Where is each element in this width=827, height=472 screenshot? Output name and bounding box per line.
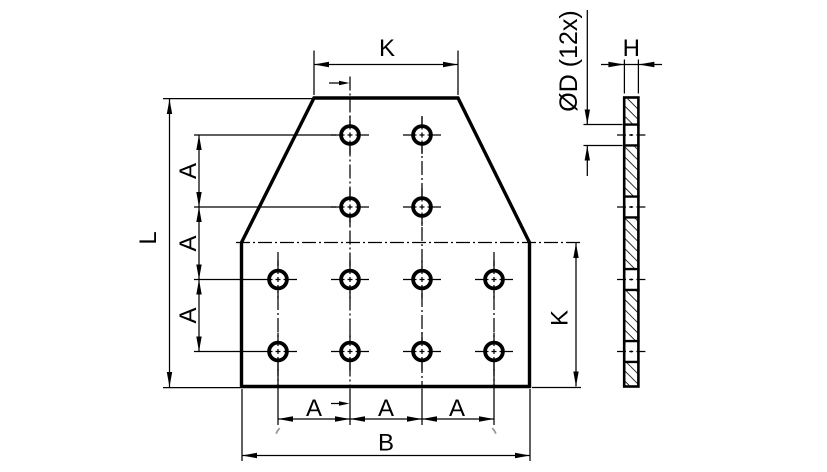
dimension L: arrowheads — [167, 99, 172, 114]
dimension K top: extension lines — [313, 51, 315, 96]
small reference arrow top — [329, 82, 346, 84]
hole crosshairs — [259, 116, 513, 371]
dimension OD: leader line upper — [586, 10, 588, 124]
holes (12x) — [269, 126, 503, 360]
column centerline col3 x=422 — [421, 117, 423, 387]
dimension A left chain: arrowheads — [196, 135, 201, 150]
svg-text:ØD (12x): ØD (12x) — [555, 10, 583, 111]
side view hatching segments — [625, 99, 638, 125]
phantom arc marks — [276, 428, 280, 434]
dimension K top: dimension line — [314, 64, 458, 66]
column centerline col4 x=494 — [493, 252, 495, 387]
dimension H: extension lines — [623, 60, 625, 94]
dimension B: dimension line — [242, 455, 530, 457]
dimension B: arrowheads — [242, 453, 257, 458]
dimension K right: arrowheads — [573, 243, 578, 258]
dimension K top: arrowheads — [314, 62, 329, 67]
plate outline (front view T-plate) — [242, 98, 530, 387]
dimension L: extension lines — [163, 98, 313, 100]
svg-text:A: A — [449, 395, 465, 422]
svg-text:H: H — [623, 35, 640, 62]
dimension H: arrowheads — [608, 62, 624, 67]
dimension L: dimension line — [169, 99, 171, 387]
column centerline col2 x=350 — [349, 77, 351, 387]
main horizontal centerline — [236, 242, 581, 244]
svg-text:K: K — [547, 310, 574, 326]
side view bar outline — [624, 98, 638, 387]
bottom A chain: extension lines — [277, 369, 279, 425]
side view hole centerlines — [617, 135, 646, 352]
bottom A chain: arrowheads — [278, 416, 293, 421]
svg-text:A: A — [175, 307, 202, 323]
column centerline col1 x=278 — [277, 252, 279, 387]
side view hole center dots — [630, 134, 632, 353]
dimension A left chain: extension lines — [194, 134, 336, 136]
dimension K right: extension line bottom — [532, 387, 581, 389]
dimension OD: extension lines — [584, 124, 623, 126]
svg-text:A: A — [175, 235, 202, 251]
svg-text:A: A — [175, 163, 202, 179]
svg-text:L: L — [135, 231, 162, 244]
small reference arrow bottom — [331, 403, 346, 405]
dimension K right: dimension line — [575, 243, 577, 387]
svg-text:A: A — [378, 395, 394, 422]
bottom A chain: dimension line — [278, 418, 494, 420]
side view hole edges — [623, 125, 640, 362]
dimension OD: leader line lower — [586, 146, 588, 176]
dimension H: dimension line — [601, 64, 662, 66]
dimension B: extension lines — [241, 389, 243, 461]
svg-text:B: B — [378, 430, 394, 457]
dimension A left chain: dimension line — [198, 135, 200, 352]
svg-text:A: A — [306, 395, 322, 422]
svg-text:K: K — [379, 35, 395, 62]
